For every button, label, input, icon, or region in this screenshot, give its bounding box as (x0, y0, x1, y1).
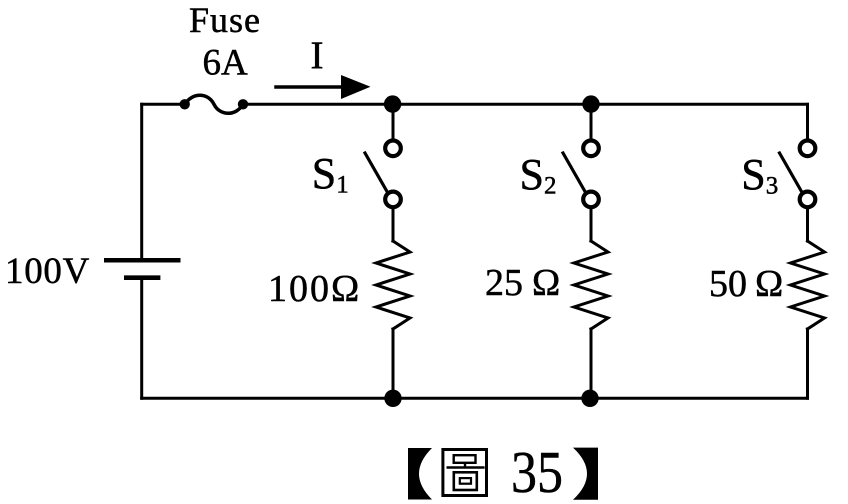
svg-text:100Ω: 100Ω (268, 268, 361, 310)
svg-text:50Ω: 50Ω (709, 263, 783, 305)
svg-text:S1: S1 (312, 149, 349, 199)
svg-text:35: 35 (511, 439, 563, 504)
svg-text:100V: 100V (5, 251, 90, 292)
svg-text:I: I (311, 34, 324, 77)
svg-text:25Ω: 25Ω (485, 262, 560, 304)
svg-text:6A: 6A (203, 43, 249, 84)
svg-text:S2: S2 (520, 150, 557, 200)
svg-text:Fuse: Fuse (189, 0, 261, 40)
svg-text:S3: S3 (741, 150, 778, 200)
